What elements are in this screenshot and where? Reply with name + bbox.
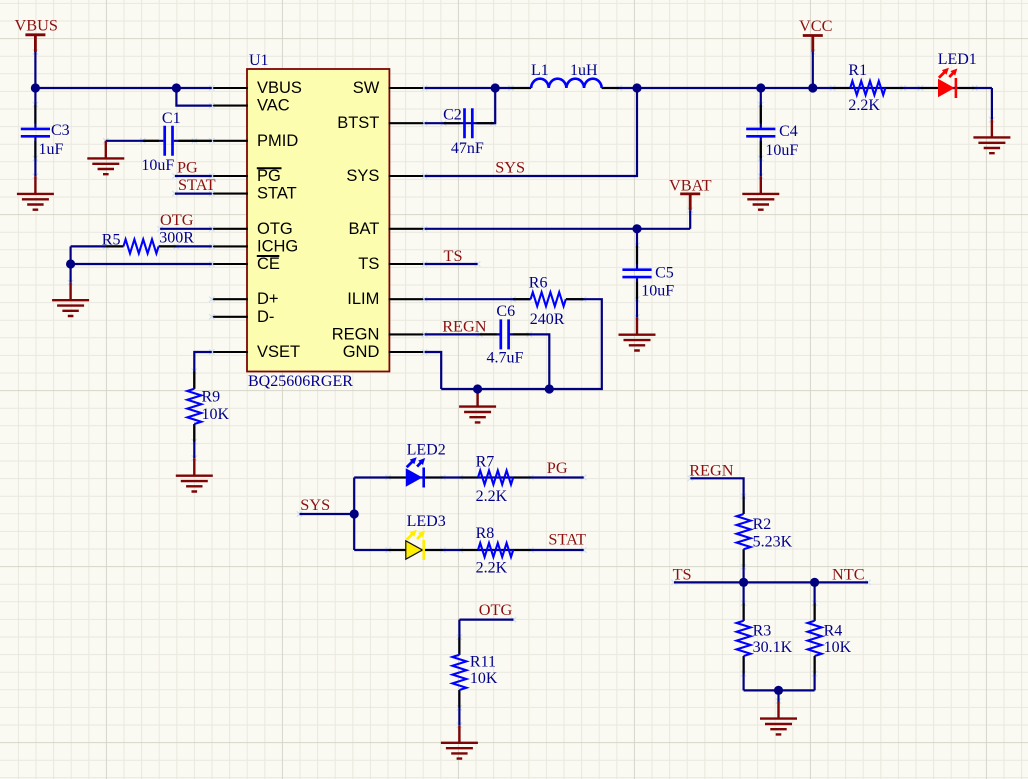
svg-text:2.2K: 2.2K xyxy=(848,97,880,114)
svg-text:REGN: REGN xyxy=(332,325,380,343)
svg-text:R1: R1 xyxy=(848,62,867,79)
svg-text:2.2K: 2.2K xyxy=(476,560,508,577)
svg-text:10K: 10K xyxy=(824,639,852,656)
svg-text:STAT: STAT xyxy=(257,185,297,203)
svg-text:PG: PG xyxy=(547,458,568,477)
svg-text:10uF: 10uF xyxy=(765,142,798,159)
svg-text:10uF: 10uF xyxy=(641,283,674,300)
svg-text:4.7uF: 4.7uF xyxy=(487,349,524,366)
svg-text:TS: TS xyxy=(444,246,463,265)
svg-text:R5: R5 xyxy=(102,232,121,249)
svg-text:REGN: REGN xyxy=(689,461,734,480)
svg-text:REGN: REGN xyxy=(442,317,487,336)
svg-text:R2: R2 xyxy=(753,516,772,533)
svg-text:CE: CE xyxy=(257,255,280,273)
svg-text:D-: D- xyxy=(257,308,274,326)
svg-text:VSET: VSET xyxy=(257,343,300,361)
svg-text:TS: TS xyxy=(673,564,692,583)
svg-text:GND: GND xyxy=(343,343,380,361)
svg-text:C2: C2 xyxy=(443,107,462,124)
svg-text:BTST: BTST xyxy=(337,114,379,132)
svg-text:R8: R8 xyxy=(476,525,495,542)
svg-text:VBUS: VBUS xyxy=(15,16,58,35)
svg-text:VBUS: VBUS xyxy=(257,79,302,97)
svg-text:240R: 240R xyxy=(530,311,565,328)
svg-text:LED1: LED1 xyxy=(938,51,977,68)
svg-text:SW: SW xyxy=(353,79,380,97)
svg-text:2.2K: 2.2K xyxy=(476,488,508,505)
svg-text:C4: C4 xyxy=(779,123,798,140)
svg-text:U1: U1 xyxy=(249,52,269,69)
svg-text:VAC: VAC xyxy=(257,97,290,115)
svg-text:ILIM: ILIM xyxy=(347,290,379,308)
svg-text:10K: 10K xyxy=(470,670,498,687)
svg-text:10uF: 10uF xyxy=(141,157,174,174)
svg-text:TS: TS xyxy=(358,255,379,273)
svg-text:47nF: 47nF xyxy=(451,140,484,157)
svg-text:LED3: LED3 xyxy=(407,513,446,530)
svg-text:OTG: OTG xyxy=(257,220,293,238)
svg-text:SYS: SYS xyxy=(495,158,525,177)
svg-text:BAT: BAT xyxy=(349,220,380,238)
svg-text:R4: R4 xyxy=(824,623,843,640)
svg-text:PMID: PMID xyxy=(257,132,298,150)
svg-text:R7: R7 xyxy=(476,454,495,471)
svg-text:PG: PG xyxy=(257,167,281,185)
svg-text:LED2: LED2 xyxy=(407,442,446,459)
svg-text:5.23K: 5.23K xyxy=(753,533,793,550)
svg-text:30.1K: 30.1K xyxy=(753,639,793,656)
svg-text:STAT: STAT xyxy=(548,530,586,549)
svg-text:OTG: OTG xyxy=(479,600,513,619)
svg-text:OTG: OTG xyxy=(160,210,194,229)
svg-text:C5: C5 xyxy=(655,265,674,282)
svg-text:VBAT: VBAT xyxy=(669,175,712,194)
svg-text:10K: 10K xyxy=(202,406,230,423)
svg-text:D+: D+ xyxy=(257,290,279,308)
svg-text:BQ25606RGER: BQ25606RGER xyxy=(248,373,353,390)
svg-text:NTC: NTC xyxy=(832,564,865,583)
svg-text:R11: R11 xyxy=(470,654,496,671)
svg-text:STAT: STAT xyxy=(178,175,216,194)
svg-text:R9: R9 xyxy=(202,389,221,406)
svg-text:R3: R3 xyxy=(753,623,772,640)
svg-text:ICHG: ICHG xyxy=(257,237,298,255)
svg-text:1uF: 1uF xyxy=(39,141,64,158)
svg-text:SYS: SYS xyxy=(300,495,330,514)
svg-text:L1: L1 xyxy=(531,62,549,79)
svg-text:C1: C1 xyxy=(162,110,181,127)
svg-text:C6: C6 xyxy=(496,303,515,320)
svg-text:PG: PG xyxy=(177,157,198,176)
svg-text:C3: C3 xyxy=(51,122,70,139)
svg-text:300R: 300R xyxy=(159,230,194,247)
svg-text:VCC: VCC xyxy=(799,16,832,35)
svg-text:1uH: 1uH xyxy=(570,62,598,79)
svg-text:SYS: SYS xyxy=(346,167,379,185)
svg-text:R6: R6 xyxy=(529,275,548,292)
